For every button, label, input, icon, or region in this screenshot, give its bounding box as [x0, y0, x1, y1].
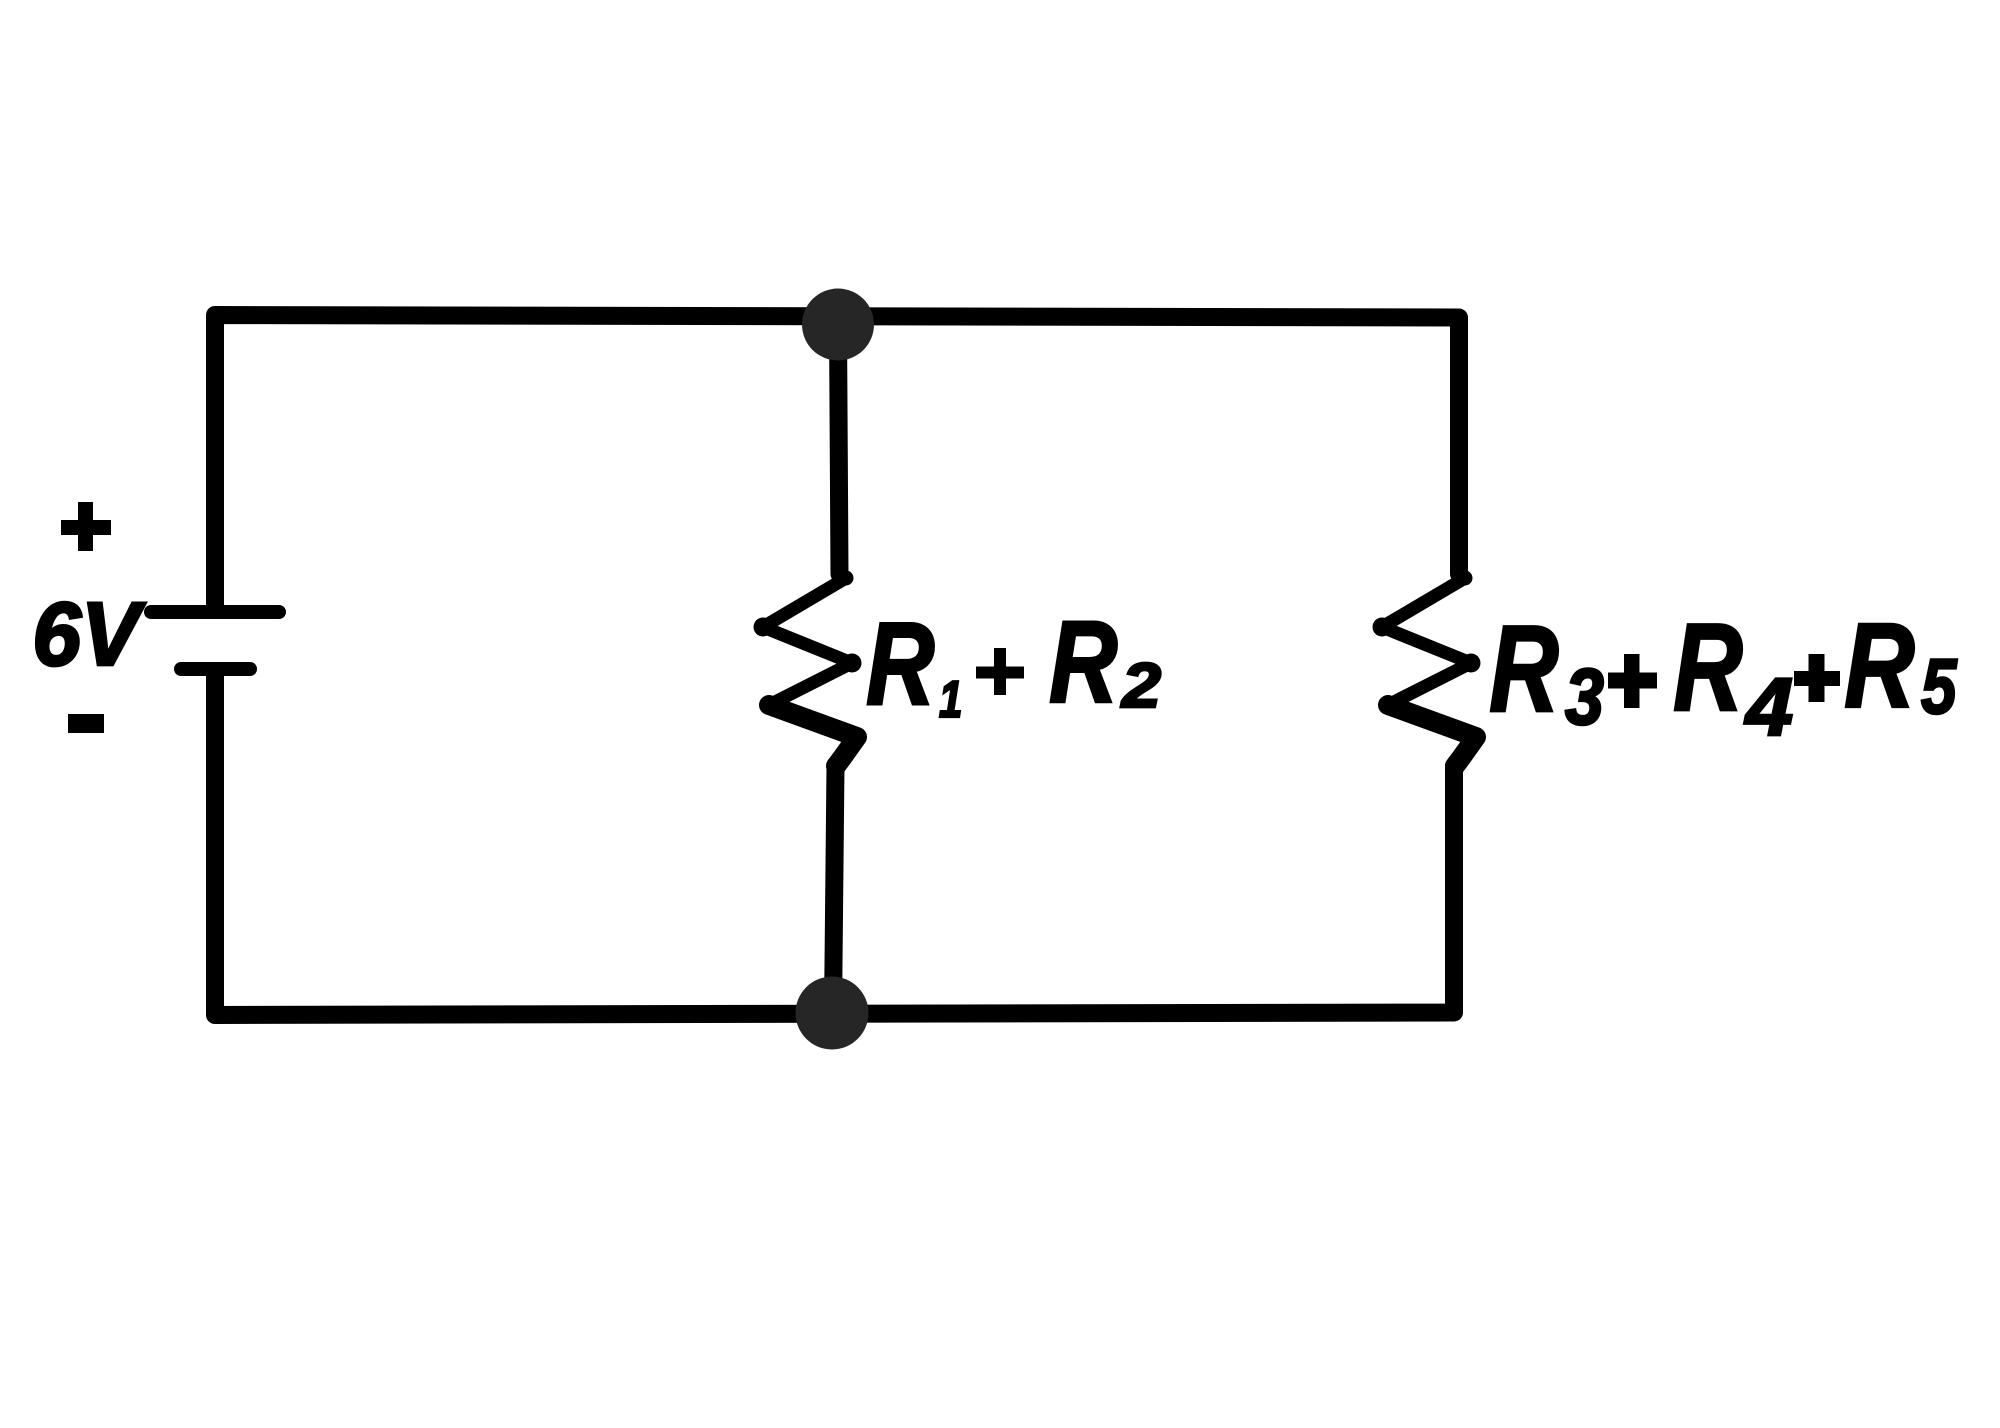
svg-text:R: R [1844, 599, 1914, 733]
svg-text:3: 3 [1565, 652, 1604, 741]
svg-text:R: R [1489, 601, 1558, 738]
svg-text:6V: 6V [32, 584, 146, 684]
svg-text:5: 5 [1921, 644, 1958, 731]
svg-text:4: 4 [1744, 660, 1793, 752]
svg-text:R: R [1673, 597, 1742, 737]
svg-text:2: 2 [1120, 651, 1161, 721]
svg-text:1: 1 [939, 671, 962, 729]
svg-text:R: R [866, 598, 934, 729]
svg-text:R: R [1049, 598, 1117, 727]
